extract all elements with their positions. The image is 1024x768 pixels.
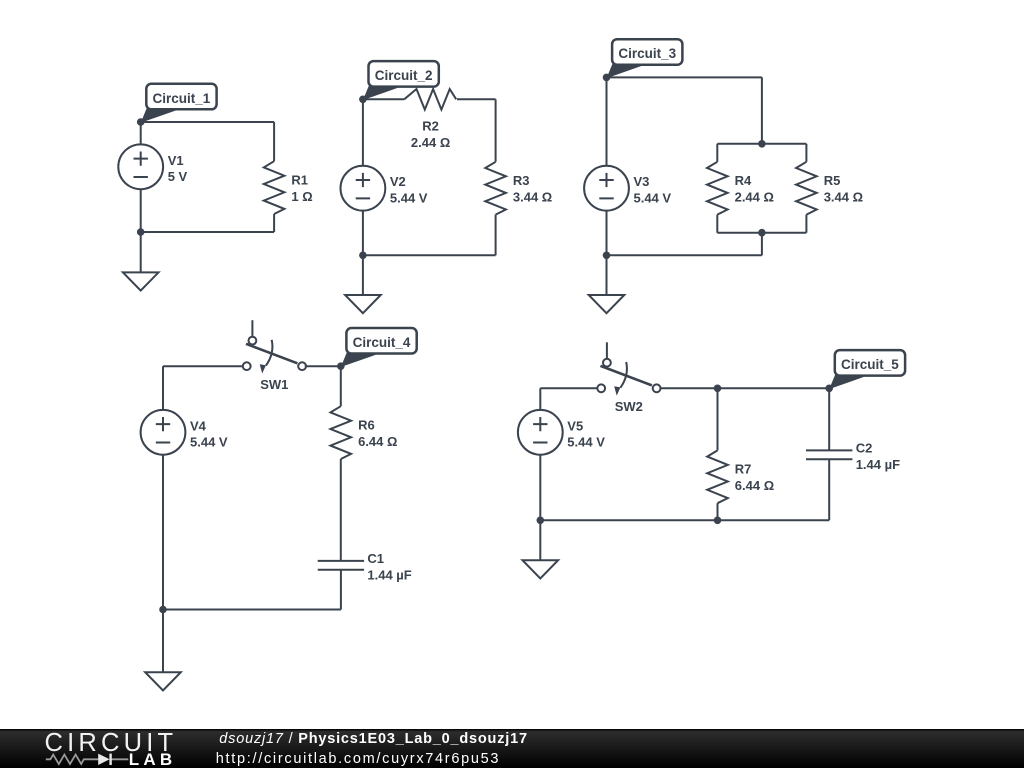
- node circuit1 bottom junction: [137, 228, 145, 236]
- wire R7 node to C2 node: [718, 387, 830, 389]
- voltage source V3: [584, 166, 671, 211]
- svg-text:5 V: 5 V: [168, 169, 188, 184]
- svg-text:3.44 Ω: 3.44 Ω: [824, 190, 863, 205]
- CircuitLab logo resistor-diode glyph: [46, 755, 129, 764]
- svg-text:R7: R7: [735, 462, 752, 477]
- wire R6 to C1: [340, 459, 342, 561]
- wire V2 top lead: [362, 99, 364, 166]
- wire circuit4 ground stem: [162, 610, 164, 673]
- voltage source V2: [341, 166, 428, 211]
- svg-text:R3: R3: [513, 173, 530, 188]
- wire circuit1 ground stem: [140, 232, 142, 272]
- svg-text:V2: V2: [390, 174, 406, 189]
- wire V3 top lead: [606, 77, 608, 166]
- wire R6 top lead: [340, 366, 342, 406]
- resistor R3: [485, 162, 552, 215]
- wire switch to node circuit4: [305, 365, 341, 367]
- wire parallel bottom rail: [717, 232, 806, 234]
- wire circuit5 bottom: [540, 519, 829, 521]
- resistor R7: [707, 450, 774, 503]
- ground circuit2: [345, 295, 381, 313]
- wire circuit3 ground stem: [606, 255, 608, 295]
- wire circuit5 ground stem: [539, 520, 541, 560]
- wire circuit3 right drop: [761, 77, 763, 143]
- wire R7 top lead: [717, 388, 719, 450]
- wire circuit5 source to switch: [540, 387, 597, 389]
- svg-text:V5: V5: [567, 418, 583, 433]
- wire circuit2 bottom: [363, 254, 496, 256]
- svg-text:R1: R1: [291, 172, 308, 187]
- wire V5 top lead: [539, 388, 541, 410]
- wire circuit3 bottom: [607, 254, 762, 256]
- voltage source V5: [518, 410, 605, 455]
- wire circuit3 top: [607, 76, 762, 78]
- node Circuit_4 label flag: [341, 328, 417, 367]
- svg-text:Circuit_2: Circuit_2: [375, 68, 433, 83]
- ground circuit5: [523, 560, 559, 578]
- wire switch to R7 node: [661, 387, 718, 389]
- svg-text:V4: V4: [190, 418, 207, 433]
- voltage source V1: [118, 144, 187, 189]
- wire C1 bottom lead: [340, 570, 342, 610]
- svg-text:2.44 Ω: 2.44 Ω: [735, 190, 774, 205]
- wire R5 top lead: [805, 144, 807, 162]
- capacitor C1: [318, 551, 412, 583]
- resistor R2: [404, 89, 456, 150]
- resistor R4: [707, 162, 774, 215]
- wire R4 top lead: [716, 144, 718, 162]
- ground circuit3: [589, 295, 625, 313]
- svg-text:R5: R5: [824, 173, 841, 188]
- node Circuit_4: [337, 362, 345, 370]
- svg-text:2.44 Ω: 2.44 Ω: [411, 135, 450, 150]
- svg-text:Circuit_3: Circuit_3: [618, 46, 676, 61]
- wire R4 bottom lead: [716, 215, 718, 233]
- node circuit5 bottom R7 junction: [714, 517, 722, 525]
- wire V4 bottom lead: [162, 455, 164, 610]
- svg-text:R4: R4: [735, 173, 752, 188]
- wire R1 bottom lead: [273, 214, 275, 232]
- svg-text:5.44 V: 5.44 V: [190, 435, 228, 450]
- node circuit5 bottom junction: [537, 517, 545, 525]
- wire circuit2 top left: [363, 98, 404, 100]
- node circuit3 bottom junction: [603, 252, 611, 260]
- svg-text:Circuit_1: Circuit_1: [153, 91, 211, 106]
- svg-text:LAB: LAB: [129, 750, 177, 768]
- wire R5 bottom lead: [805, 215, 807, 233]
- wire R1 top lead: [273, 122, 275, 161]
- voltage source V4: [141, 410, 228, 455]
- svg-text:R2: R2: [422, 119, 439, 134]
- resistor R1: [264, 161, 313, 214]
- svg-text:dsouzj17 / Physics1E03_Lab_0_d: dsouzj17 / Physics1E03_Lab_0_dsouzj17: [219, 731, 528, 747]
- ground circuit1: [123, 272, 159, 290]
- node circuit2 bottom junction: [359, 252, 367, 260]
- wire circuit2 ground stem: [362, 255, 364, 295]
- node Circuit_5: [825, 385, 833, 393]
- node Circuit_3: [603, 74, 611, 82]
- resistor R6: [331, 406, 398, 459]
- node Circuit_5 label flag: [829, 350, 905, 389]
- svg-text:V3: V3: [634, 174, 650, 189]
- resistor R5: [796, 162, 863, 215]
- node Circuit_2: [359, 96, 367, 104]
- node Circuit_3 label flag: [607, 39, 683, 78]
- wire C2 bottom lead: [828, 459, 830, 520]
- svg-text:3.44 Ω: 3.44 Ω: [513, 190, 552, 205]
- svg-text:Circuit_4: Circuit_4: [353, 335, 411, 350]
- wire R3 bottom lead: [495, 215, 497, 256]
- wire circuit2 top right: [457, 98, 496, 100]
- node parallel top junction: [758, 140, 766, 148]
- wire V2 bottom lead: [362, 210, 364, 255]
- node parallel bottom junction: [758, 229, 766, 237]
- wire V1 top lead: [140, 122, 142, 145]
- svg-text:1.44 µF: 1.44 µF: [367, 568, 411, 583]
- switch SW2: [597, 342, 660, 414]
- wire C2 top lead: [828, 388, 830, 450]
- svg-text:6.44 Ω: 6.44 Ω: [735, 478, 774, 493]
- node Circuit_1: [137, 118, 145, 126]
- svg-text:R6: R6: [358, 417, 375, 432]
- svg-text:1.44 µF: 1.44 µF: [856, 457, 900, 472]
- wire V1 bottom lead: [140, 189, 142, 232]
- node circuit4 bottom junction: [159, 606, 167, 614]
- wire R7 bottom lead: [717, 503, 719, 520]
- wire circuit4 bottom: [163, 609, 341, 611]
- node Circuit_1 label flag: [141, 84, 217, 123]
- wire circuit3 right bottom drop: [761, 233, 763, 256]
- svg-text:SW1: SW1: [260, 377, 288, 392]
- svg-text:C2: C2: [856, 441, 873, 456]
- ground circuit4: [145, 672, 181, 690]
- wire circuit1 top: [141, 121, 274, 123]
- svg-text:V1: V1: [168, 153, 184, 168]
- svg-text:5.44 V: 5.44 V: [634, 191, 672, 206]
- svg-text:SW2: SW2: [615, 399, 643, 414]
- svg-text:C1: C1: [367, 551, 384, 566]
- svg-text:5.44 V: 5.44 V: [567, 435, 605, 450]
- wire V4 top lead: [162, 366, 164, 410]
- svg-text:1 Ω: 1 Ω: [291, 189, 312, 204]
- svg-text:http://circuitlab.com/cuyrx74r: http://circuitlab.com/cuyrx74r6pu53: [216, 751, 500, 767]
- capacitor C2: [806, 441, 900, 473]
- node circuit5 top R7 junction: [714, 385, 722, 393]
- svg-text:6.44 Ω: 6.44 Ω: [358, 434, 397, 449]
- wire V5 bottom lead: [539, 455, 541, 521]
- switch SW1: [243, 320, 306, 392]
- wire R3 top lead: [495, 99, 497, 162]
- wire V3 bottom lead: [606, 210, 608, 255]
- node Circuit_2 label flag: [363, 61, 439, 100]
- wire circuit4 source to switch: [163, 365, 243, 367]
- svg-text:Circuit_5: Circuit_5: [841, 357, 899, 372]
- wire circuit1 bottom: [141, 231, 274, 233]
- svg-text:5.44 V: 5.44 V: [390, 191, 428, 206]
- wire parallel top rail: [717, 143, 806, 145]
